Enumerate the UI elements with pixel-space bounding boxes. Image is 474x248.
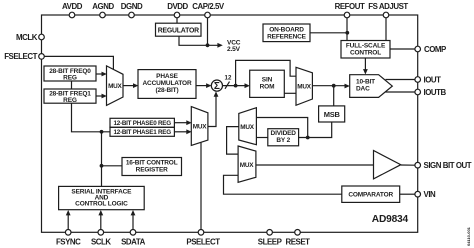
svg-text:IOUTB: IOUTB <box>424 88 447 97</box>
svg-text:MUX: MUX <box>240 124 254 131</box>
svg-text:(28-BIT): (28-BIT) <box>156 87 179 94</box>
svg-text:SIGN BIT OUT: SIGN BIT OUT <box>424 161 472 170</box>
svg-text:FS ADJUST: FS ADJUST <box>368 2 408 11</box>
svg-text:CONTROL LOGIC: CONTROL LOGIC <box>75 201 128 208</box>
svg-text:AGND: AGND <box>92 2 114 11</box>
svg-text:AD9834: AD9834 <box>372 214 409 225</box>
svg-text:PHASE: PHASE <box>156 73 178 80</box>
svg-text:ON-BOARD: ON-BOARD <box>269 26 304 33</box>
svg-text:MUX: MUX <box>108 83 122 90</box>
svg-text:Σ: Σ <box>214 81 220 92</box>
svg-text:12-BIT PHASE0 REG: 12-BIT PHASE0 REG <box>114 120 172 127</box>
svg-text:DIVIDED: DIVIDED <box>271 130 297 137</box>
svg-text:FSYNC: FSYNC <box>56 238 81 247</box>
svg-text:FULL-SCALE: FULL-SCALE <box>346 43 386 50</box>
svg-text:COMPARATOR: COMPARATOR <box>348 192 393 199</box>
svg-text:MUX: MUX <box>193 124 207 131</box>
svg-text:REFOUT: REFOUT <box>335 2 365 11</box>
svg-text:REG: REG <box>63 74 77 81</box>
svg-text:FSELECT: FSELECT <box>4 52 37 61</box>
svg-text:SLEEP: SLEEP <box>258 238 282 247</box>
svg-text:DVDD: DVDD <box>167 2 188 11</box>
svg-text:REG: REG <box>63 97 77 104</box>
svg-text:2.5V: 2.5V <box>227 46 241 53</box>
svg-text:SIN: SIN <box>262 76 273 83</box>
svg-text:MSB: MSB <box>324 110 341 119</box>
svg-text:VIN: VIN <box>424 190 437 199</box>
svg-text:DGND: DGND <box>121 2 143 11</box>
svg-text:REFERENCE: REFERENCE <box>267 33 307 40</box>
svg-text:12: 12 <box>225 74 232 81</box>
svg-text:IOUT: IOUT <box>424 75 442 84</box>
svg-text:RESET: RESET <box>285 238 310 247</box>
svg-text:MCLK: MCLK <box>16 33 38 42</box>
svg-text:BY 2: BY 2 <box>276 137 290 144</box>
svg-text:DAC: DAC <box>356 85 370 92</box>
svg-text:REGULATOR: REGULATOR <box>158 27 199 34</box>
svg-text:10-BIT: 10-BIT <box>356 78 375 85</box>
svg-text:PSELECT: PSELECT <box>186 238 220 247</box>
svg-text:ACCUMULATOR: ACCUMULATOR <box>142 80 191 87</box>
svg-text:CAP/2.5V: CAP/2.5V <box>192 2 225 11</box>
svg-text:REGISTER: REGISTER <box>136 167 168 174</box>
svg-text:04110-001: 04110-001 <box>466 226 471 246</box>
svg-text:MUX: MUX <box>240 162 254 169</box>
svg-text:SCLK: SCLK <box>91 238 111 247</box>
svg-text:COMP: COMP <box>424 45 446 54</box>
svg-text:12-BIT PHASE1 REG: 12-BIT PHASE1 REG <box>114 129 172 136</box>
svg-text:SDATA: SDATA <box>121 238 146 247</box>
svg-text:16-BIT CONTROL: 16-BIT CONTROL <box>126 160 178 167</box>
svg-text:MUX: MUX <box>297 84 311 91</box>
svg-text:ROM: ROM <box>260 83 275 90</box>
svg-text:CONTROL: CONTROL <box>350 50 381 57</box>
svg-text:AVDD: AVDD <box>62 2 83 11</box>
